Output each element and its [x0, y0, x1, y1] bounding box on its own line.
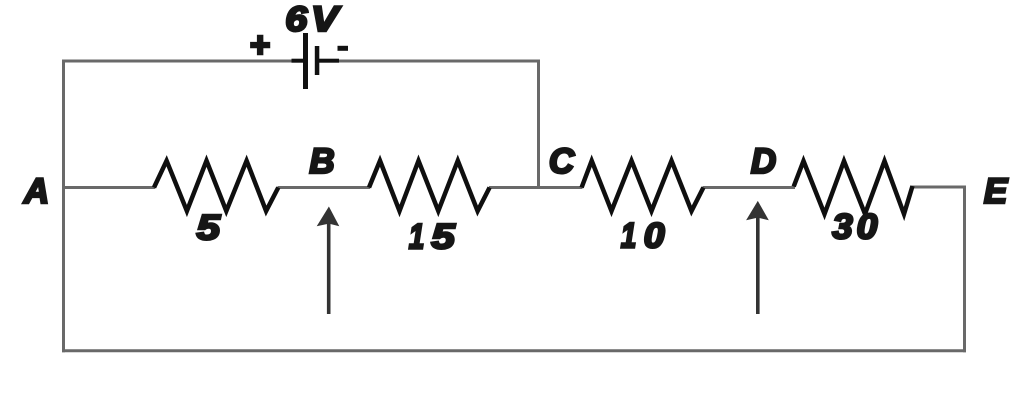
wire bottom horizontal return — [62, 349, 966, 352]
battery left lead stub — [292, 59, 305, 63]
svg-text:0: 0 — [644, 216, 665, 256]
svg-text:B: B — [309, 142, 334, 181]
wire left vertical branch at A — [62, 60, 65, 353]
battery negative short plate — [315, 46, 320, 75]
svg-text:+: + — [249, 26, 269, 65]
svg-text:5: 5 — [431, 218, 455, 257]
svg-text:6: 6 — [285, 0, 307, 39]
arrow head at node B — [317, 207, 340, 227]
arrow shaft at node D — [756, 207, 760, 314]
resistor R4 30 ohm zigzag — [794, 161, 913, 214]
arrow shaft at node B — [327, 213, 331, 314]
svg-text:0: 0 — [857, 207, 878, 247]
wire middle vertical drop to node C — [537, 60, 540, 189]
svg-text:5: 5 — [197, 209, 221, 248]
wire resistor 10 to resistor 30 (node D) — [703, 186, 796, 189]
svg-text:3: 3 — [832, 207, 852, 246]
svg-text:1: 1 — [409, 216, 425, 256]
svg-text:A: A — [23, 172, 49, 211]
wire resistor 15 to resistor 10 (node C) — [489, 186, 583, 189]
wire resistor 30 to node E — [912, 186, 967, 189]
svg-text:1: 1 — [621, 215, 637, 255]
wire A to resistor 5 — [62, 186, 155, 189]
battery right lead stub — [319, 59, 339, 63]
svg-text:V: V — [311, 1, 341, 40]
wire right vertical branch at E — [963, 186, 966, 353]
svg-text:E: E — [984, 172, 1009, 211]
arrow head at node D — [746, 201, 769, 220]
wire top horizontal right of battery — [339, 60, 540, 63]
battery minus sign — [338, 46, 349, 51]
resistor R3 10 ohm zigzag — [582, 161, 704, 211]
svg-text:D: D — [751, 142, 776, 181]
wire top horizontal left of battery — [62, 60, 292, 63]
svg-text:C: C — [549, 142, 575, 181]
resistor R1 5 ohm zigzag — [154, 161, 278, 211]
wire resistor 5 to resistor 15 (node B) — [278, 186, 371, 189]
battery positive long plate — [303, 33, 308, 89]
resistor R2 15 ohm zigzag — [369, 161, 490, 211]
